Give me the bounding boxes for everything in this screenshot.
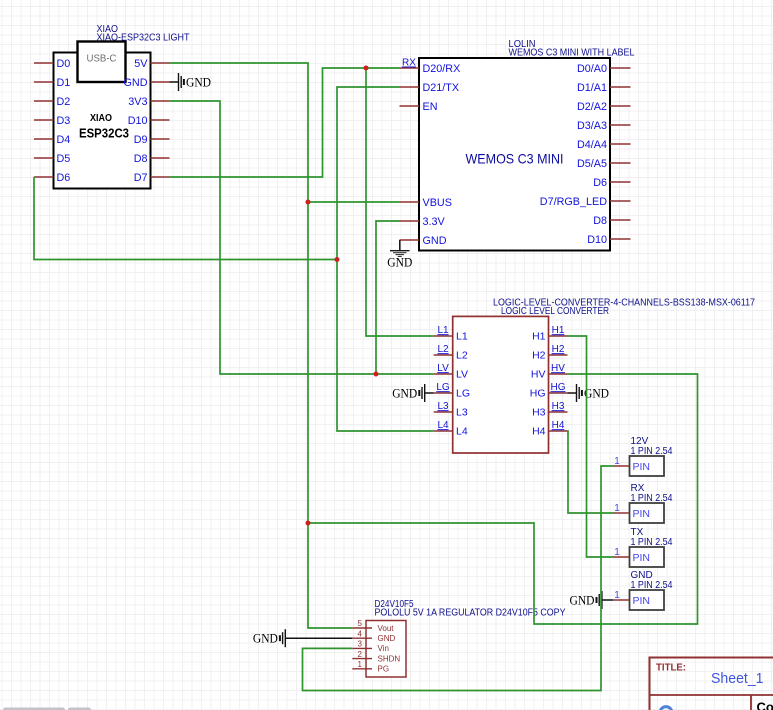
svg-text:2: 2 xyxy=(358,650,363,659)
pin 2 SHDN of U4 xyxy=(352,650,400,664)
svg-text:HG: HG xyxy=(551,382,566,393)
pin EN of U2 xyxy=(400,101,438,113)
svg-text:H1: H1 xyxy=(552,325,565,336)
svg-text:HV: HV xyxy=(551,363,565,374)
ground flag on U3 HG pin xyxy=(568,384,610,402)
svg-text:PIN: PIN xyxy=(633,595,651,607)
svg-text:HG: HG xyxy=(530,388,546,400)
svg-text:L3: L3 xyxy=(456,407,468,419)
pin D5/A5 of U2 xyxy=(577,158,631,170)
wire RX: junction to U1 D7 xyxy=(170,68,367,177)
wire RXD: U3 H4 down to P2 RX pin xyxy=(568,431,614,513)
svg-text:GND: GND xyxy=(124,77,148,89)
pin D2/A2 of U2 xyxy=(577,101,631,113)
pin VBUS of U2 xyxy=(400,197,452,209)
svg-text:EN: EN xyxy=(423,101,438,113)
pin 1 of P3 xyxy=(613,547,630,558)
svg-text:H3: H3 xyxy=(532,407,546,419)
pin L4 of U3 xyxy=(434,426,468,438)
svg-text:4: 4 xyxy=(358,629,363,638)
pin LG of U3 xyxy=(434,388,470,400)
svg-text:PIN: PIN xyxy=(633,461,651,473)
wire 5V: lower junction right-down-right-up to U3 HV xyxy=(308,374,698,624)
pin D0/A0 of U2 xyxy=(577,63,631,75)
svg-text:L1: L1 xyxy=(437,325,449,336)
pin D10 of U1 xyxy=(128,115,170,127)
pin H1 of U3 xyxy=(532,331,567,343)
svg-text:WEMOS C3 MINI WITH LABEL: WEMOS C3 MINI WITH LABEL xyxy=(509,48,635,59)
pin D4 of U1 xyxy=(34,134,70,146)
pin D6 of U2 xyxy=(593,177,630,189)
svg-text:D3/A3: D3/A3 xyxy=(577,120,607,132)
svg-text:GND: GND xyxy=(570,594,595,608)
pin D1 of U1 xyxy=(34,77,70,89)
svg-text:VBUS: VBUS xyxy=(423,197,452,209)
pin 3.3V of U2 xyxy=(400,216,446,228)
pin D4/A4 of U2 xyxy=(577,139,631,151)
pin D20/RX of U2 xyxy=(400,63,461,75)
svg-text:PIN: PIN xyxy=(633,552,651,564)
wire 3V3: junction up to U2 3.3V xyxy=(376,221,400,374)
svg-text:D5/A5: D5/A5 xyxy=(577,158,607,170)
svg-text:D20/RX: D20/RX xyxy=(423,63,461,75)
svg-text:D8: D8 xyxy=(593,215,607,227)
wire TX: junction left-up to U1 D6 xyxy=(34,177,337,260)
svg-text:PG: PG xyxy=(378,665,390,674)
pin D8 of U2 xyxy=(593,215,630,227)
svg-text:WEMOS C3 MINI: WEMOS C3 MINI xyxy=(466,151,564,167)
wire RX: junction down to U3 L1 xyxy=(366,68,434,336)
svg-text:H2: H2 xyxy=(552,344,565,355)
pin header P4 GND xyxy=(630,590,665,610)
pin header P2 RX xyxy=(630,503,665,523)
svg-text:XIAO: XIAO xyxy=(90,113,112,124)
svg-text:LOGIC LEVEL CONVERTER: LOGIC LEVEL CONVERTER xyxy=(501,306,609,317)
wire TX: U2 D21/TX to junction xyxy=(337,87,400,260)
svg-text:H1: H1 xyxy=(532,331,546,343)
svg-text:LV: LV xyxy=(456,369,468,381)
junction RX xyxy=(364,66,369,71)
pin H3 of U3 xyxy=(532,407,567,419)
earth ground symbol on U2 GND pin xyxy=(387,240,412,270)
svg-text:TITLE:: TITLE: xyxy=(656,662,686,674)
svg-text:1: 1 xyxy=(614,503,620,514)
junction 5V lower xyxy=(306,521,311,526)
svg-text:ESP32C3: ESP32C3 xyxy=(79,126,129,141)
svg-text:D4/A4: D4/A4 xyxy=(577,139,607,151)
svg-text:RX: RX xyxy=(402,58,416,69)
pin D1/A1 of U2 xyxy=(577,82,631,94)
svg-text:LG: LG xyxy=(436,382,450,393)
pin 1 PG of U4 xyxy=(352,660,389,674)
svg-text:LG: LG xyxy=(456,388,470,400)
wire 5V: junction down to lower junction xyxy=(307,202,309,523)
svg-text:H3: H3 xyxy=(552,401,565,412)
horizontal scrollbar thumbs xyxy=(3,708,91,710)
pin L3 of U3 xyxy=(434,407,468,419)
pin 5 Vout of U4 xyxy=(352,619,394,633)
pin D21/TX of U2 xyxy=(400,82,460,94)
svg-text:GND: GND xyxy=(584,387,609,401)
svg-text:D0/A0: D0/A0 xyxy=(577,63,607,75)
MCU module U1 XIAO-ESP32C3 xyxy=(54,42,151,189)
pin L1 of U3 xyxy=(434,331,468,343)
wire TX: junction down to U3 L4 xyxy=(337,260,434,432)
svg-text:1: 1 xyxy=(358,660,363,669)
pin D8 of U1 xyxy=(134,153,170,165)
pin D6 of U1 xyxy=(34,172,70,184)
svg-text:D2/A2: D2/A2 xyxy=(577,101,607,113)
wire 5V: U1 5V to corner to VBUS junction xyxy=(170,63,309,202)
pin 1 of P2 xyxy=(613,503,630,514)
wire 5V: junction to U2 VBUS xyxy=(308,201,400,203)
svg-text:1: 1 xyxy=(614,590,620,601)
title block logo xyxy=(660,707,672,710)
svg-text:L4: L4 xyxy=(456,426,468,438)
svg-text:LV: LV xyxy=(437,363,449,374)
svg-text:GND: GND xyxy=(253,632,278,646)
svg-text:D7/RGB_LED: D7/RGB_LED xyxy=(540,196,607,208)
svg-text:USB-C: USB-C xyxy=(87,54,117,65)
pin 4 GND of U4 xyxy=(352,629,395,643)
svg-text:5: 5 xyxy=(358,619,363,628)
wire TXD: U3 H1 down to P3 TX pin xyxy=(568,336,614,557)
pin 3V3 of U1 xyxy=(128,96,169,108)
junction 5V-VBUS xyxy=(306,200,311,205)
svg-text:POLOLU 5V 1A REGULATOR D24V10F: POLOLU 5V 1A REGULATOR D24V10F5 COPY xyxy=(375,607,566,618)
svg-text:3.3V: 3.3V xyxy=(423,216,446,228)
junction 3V3-LV xyxy=(374,372,379,377)
svg-text:3V3: 3V3 xyxy=(128,96,147,108)
pin header P3 TX xyxy=(630,547,665,567)
pin D2 of U1 xyxy=(34,96,70,108)
svg-text:1: 1 xyxy=(614,547,620,558)
svg-text:Sheet_1: Sheet_1 xyxy=(711,671,764,687)
svg-text:HV: HV xyxy=(531,369,546,381)
svg-text:D6: D6 xyxy=(593,177,607,189)
svg-text:D1: D1 xyxy=(57,77,71,89)
svg-text:L2: L2 xyxy=(437,344,449,355)
svg-text:PIN: PIN xyxy=(633,508,651,520)
pin D0 of U1 xyxy=(34,58,70,70)
svg-text:GND: GND xyxy=(392,387,417,401)
pin D3/A3 of U2 xyxy=(577,120,631,132)
svg-text:D10: D10 xyxy=(128,115,148,127)
pin HV of U3 xyxy=(531,369,568,381)
svg-text:D9: D9 xyxy=(134,134,148,146)
svg-text:GND: GND xyxy=(423,235,447,247)
svg-text:L1: L1 xyxy=(456,331,468,343)
svg-text:GND: GND xyxy=(378,634,396,643)
svg-text:D2: D2 xyxy=(57,96,71,108)
svg-text:H4: H4 xyxy=(552,420,565,431)
title block frame xyxy=(650,658,773,710)
pin 1 of P4 xyxy=(613,590,630,601)
pin 1 of P1 xyxy=(613,456,630,467)
ground flag on P4 pin xyxy=(570,591,614,609)
svg-text:XIAO-ESP32C3 LIGHT: XIAO-ESP32C3 LIGHT xyxy=(97,33,190,44)
pin LV of U3 xyxy=(434,369,468,381)
pin D3 of U1 xyxy=(34,115,70,127)
pin GND of U2 xyxy=(400,235,447,247)
pin H4 of U3 xyxy=(532,426,567,438)
pin D7 of U1 xyxy=(134,172,170,184)
svg-text:1: 1 xyxy=(614,456,620,467)
wire 5V: lower junction down to U4 Vout xyxy=(308,523,352,628)
svg-text:Vout: Vout xyxy=(378,624,395,633)
logic level converter U3 xyxy=(453,316,549,453)
svg-text:Com: Com xyxy=(757,700,773,710)
svg-text:H2: H2 xyxy=(532,350,546,362)
svg-text:D8: D8 xyxy=(134,153,148,165)
pin 5V of U1 xyxy=(134,58,169,70)
pin D7/RGB_LED of U2 xyxy=(540,196,631,208)
svg-text:D3: D3 xyxy=(57,115,71,127)
svg-text:D5: D5 xyxy=(57,153,71,165)
svg-text:D7: D7 xyxy=(134,172,148,184)
svg-text:3: 3 xyxy=(358,640,363,649)
pin GND of U1 xyxy=(124,77,170,89)
svg-text:SHDN: SHDN xyxy=(378,654,401,663)
svg-text:5V: 5V xyxy=(134,58,148,70)
pin D9 of U1 xyxy=(134,134,170,146)
svg-text:GND: GND xyxy=(186,76,211,90)
pin HG of U3 xyxy=(530,388,568,400)
ground flag on U1 GND pin xyxy=(170,73,212,91)
wire 12V: P1 pin to U4 Vin xyxy=(303,466,614,691)
svg-text:L3: L3 xyxy=(437,401,449,412)
svg-text:H4: H4 xyxy=(532,426,546,438)
pin D10 of U2 xyxy=(587,234,630,246)
svg-text:D21/TX: D21/TX xyxy=(423,82,460,94)
ground flag on U3 LG pin xyxy=(392,384,434,402)
pin header P1 12V xyxy=(630,456,665,476)
wire RX: U2 D20/RX to junction xyxy=(366,67,400,69)
svg-text:L4: L4 xyxy=(437,420,449,431)
svg-text:D0: D0 xyxy=(57,58,71,70)
pin H2 of U3 xyxy=(532,350,567,362)
svg-text:D1/A1: D1/A1 xyxy=(577,82,607,94)
MCU module U2 WEMOS C3 MINI xyxy=(419,58,610,251)
svg-text:D6: D6 xyxy=(57,172,71,184)
junction TX-D6 xyxy=(335,257,340,262)
svg-text:Vin: Vin xyxy=(378,644,389,653)
pin L2 of U3 xyxy=(434,350,468,362)
ground flag on U4 GND pin xyxy=(253,629,352,647)
svg-text:L2: L2 xyxy=(456,350,468,362)
pin D5 of U1 xyxy=(34,153,70,165)
wire 3V3: U1 3V3 down to U3 LV xyxy=(170,101,434,374)
svg-text:GND: GND xyxy=(387,256,412,270)
svg-text:D4: D4 xyxy=(57,134,71,146)
svg-text:D10: D10 xyxy=(587,234,607,246)
pin 3 Vin of U4 xyxy=(352,640,389,654)
regulator U4 D24V10F5 xyxy=(366,621,406,678)
